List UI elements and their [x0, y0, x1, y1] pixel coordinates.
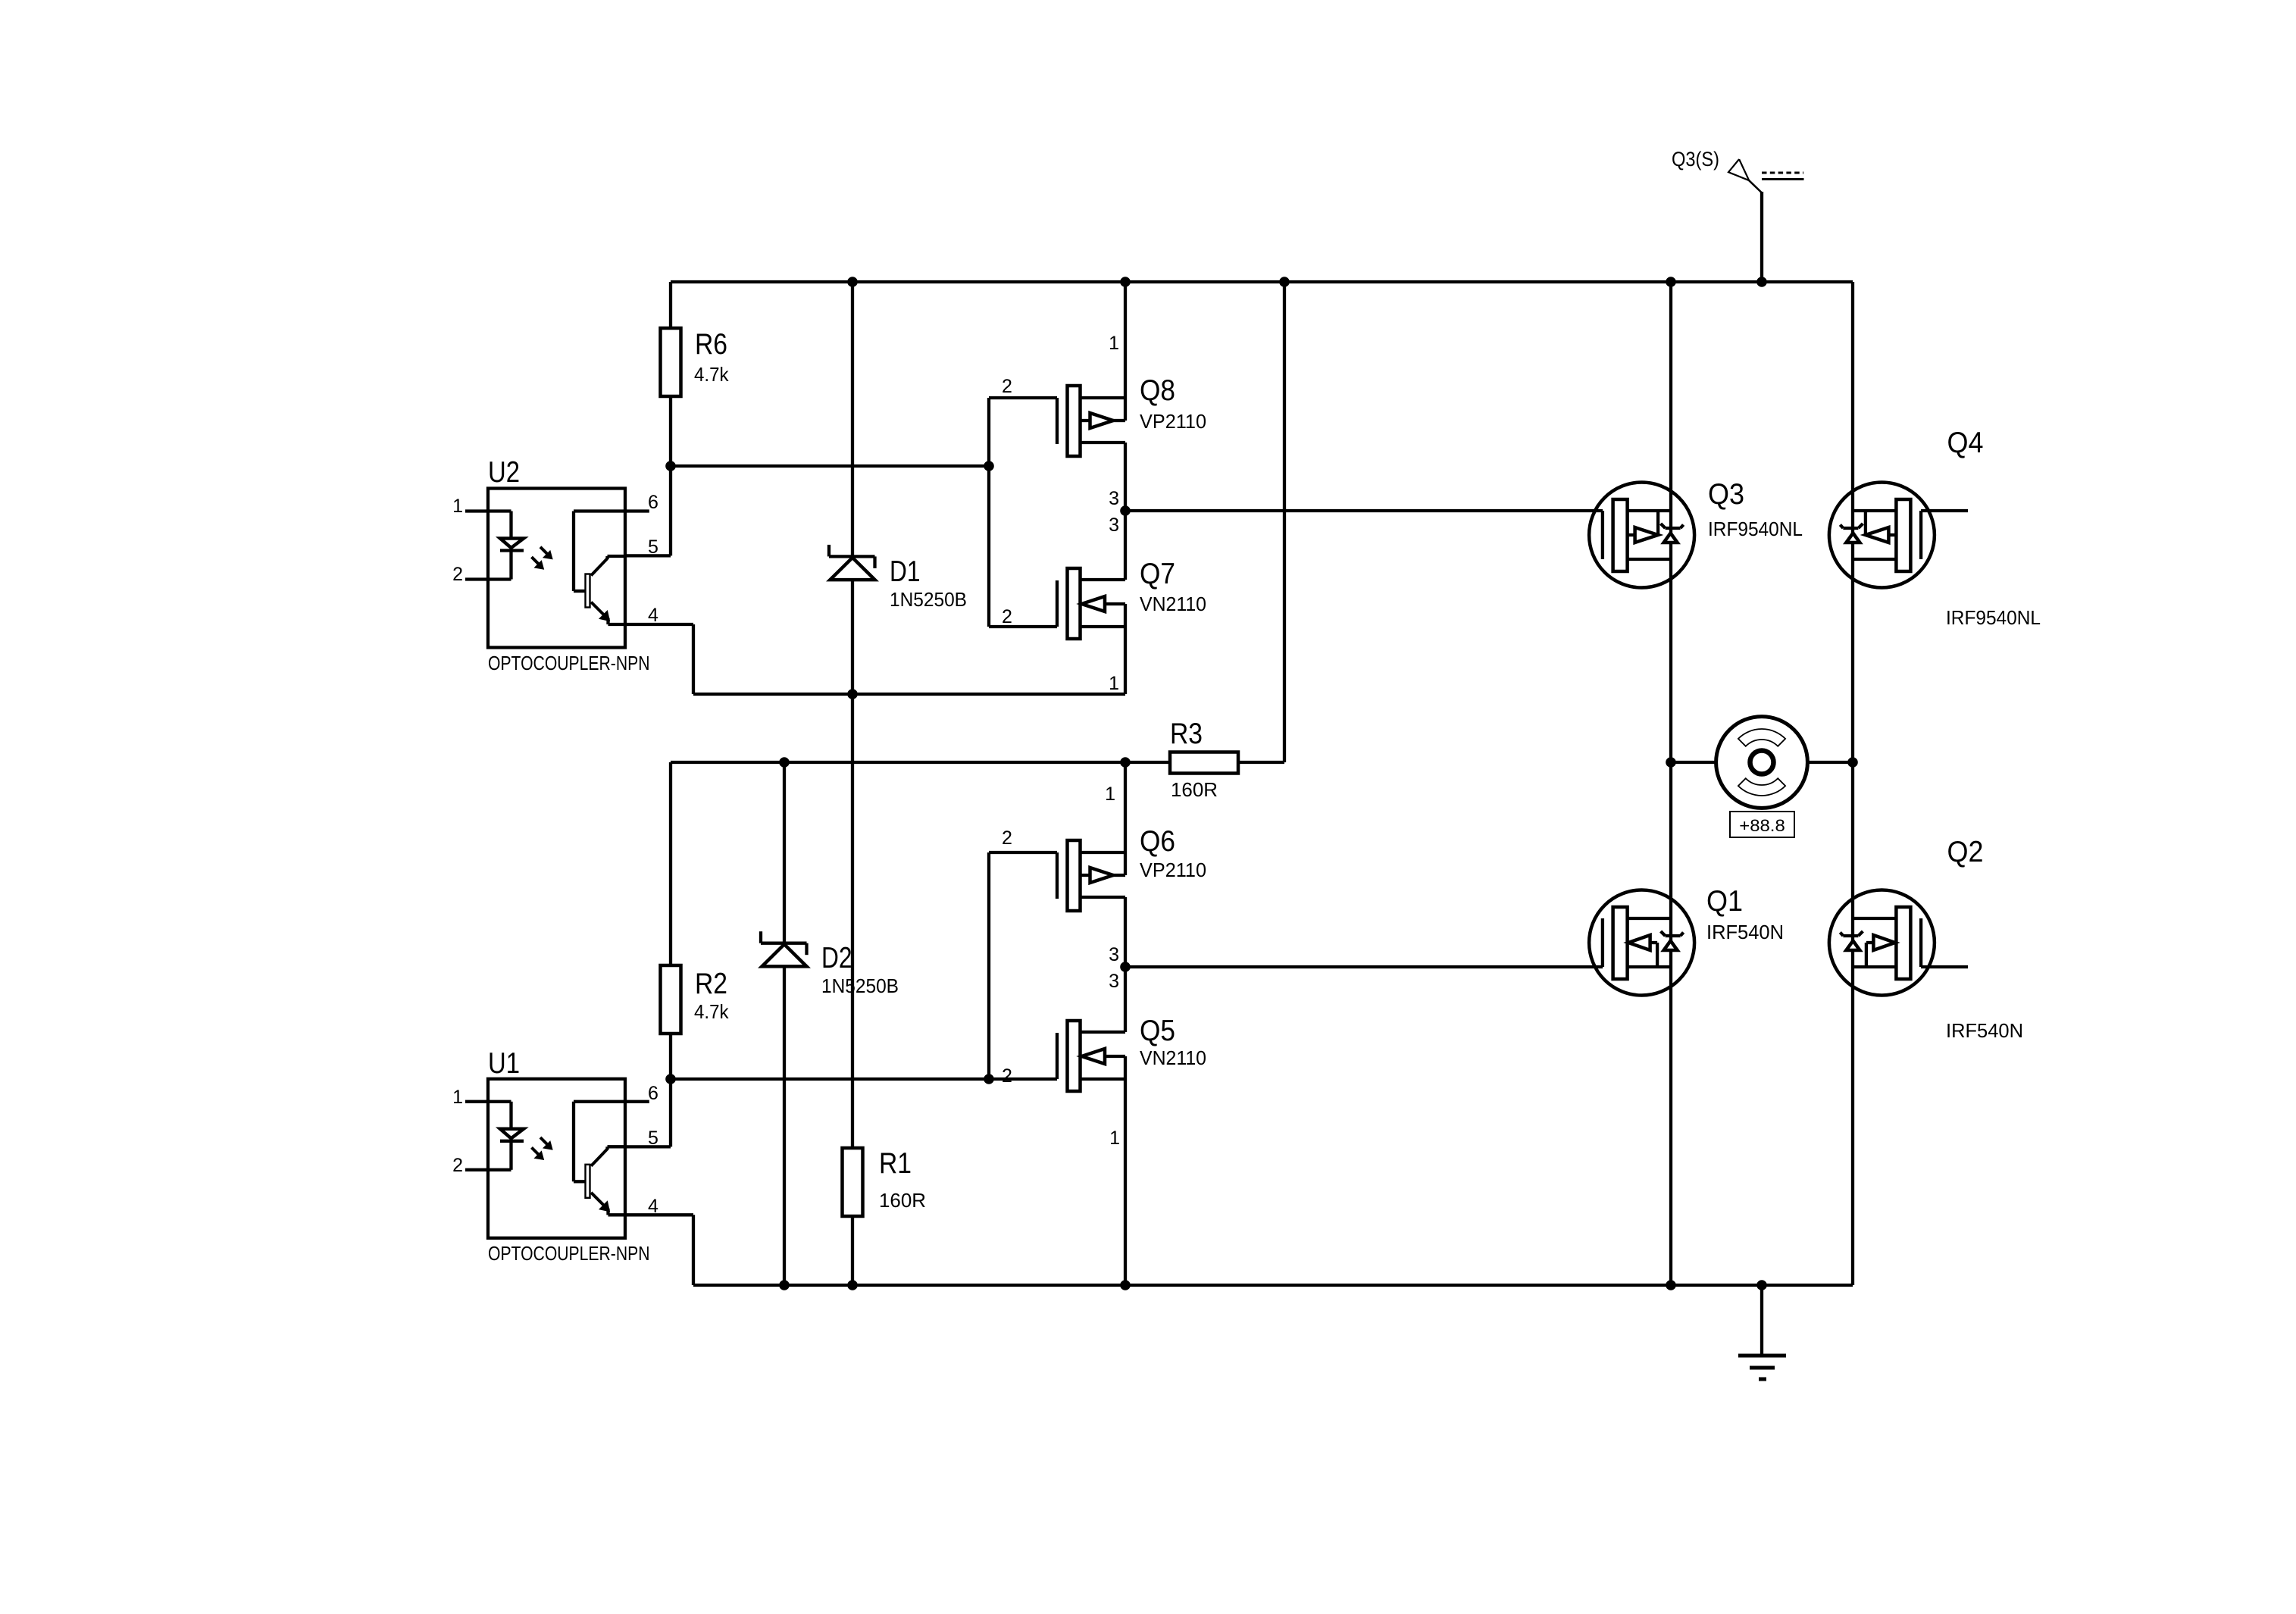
motor voltage readout +88.8 [1739, 816, 1785, 835]
svg-text:VN2110: VN2110 [1140, 1046, 1206, 1069]
wire junction down to U1 pin 5 [625, 1079, 671, 1146]
U2 pin 2 number [452, 564, 463, 585]
svg-text:R1: R1 [879, 1147, 912, 1180]
node: bottom bus / R1 [847, 1280, 858, 1290]
svg-text:2: 2 [1002, 827, 1012, 849]
node: Q3/Q1 to motor [1666, 757, 1676, 768]
zener diode D1 [829, 545, 875, 580]
label Q7 [1140, 558, 1175, 590]
wire rail to R2 [669, 762, 672, 965]
wire Q2 gate stub [1921, 965, 1968, 968]
node: rail / D1 junction [847, 689, 858, 699]
svg-text:1: 1 [452, 496, 463, 517]
svg-text:VP2110: VP2110 [1140, 410, 1206, 433]
svg-text:2: 2 [1002, 1065, 1012, 1087]
wire U1 pin 6 stub [625, 1100, 649, 1103]
wire Q6/Q5 node to Q1 gate [1125, 965, 1603, 968]
svg-text:Q8: Q8 [1140, 374, 1175, 407]
U2 pin 6 number [648, 492, 658, 513]
node: lower rail / Q6 drain / R3 junction [1120, 757, 1131, 768]
svg-text:U1: U1 [488, 1047, 520, 1080]
svg-text:VN2110: VN2110 [1140, 593, 1206, 615]
svg-text:2: 2 [1002, 376, 1012, 397]
wire motor left lead [1671, 761, 1716, 764]
wire bottom ground bus [693, 1284, 1853, 1287]
U1 pin 5 number [648, 1128, 658, 1149]
wire upper mid rail [693, 693, 1125, 696]
wire U1 pin 1 stub [465, 1100, 488, 1103]
label Q3 [1708, 478, 1744, 511]
label Q2 [1947, 836, 1984, 868]
label Q3 value IRF9540NL [1708, 518, 1803, 540]
optocoupler U1 [488, 1079, 625, 1238]
svg-text:1: 1 [1109, 333, 1119, 354]
svg-text:1N5250B: 1N5250B [890, 588, 967, 611]
node: Q8/Q7 sources (3,3) [1120, 505, 1131, 516]
ground symbol [1738, 1285, 1786, 1379]
label D1 value 1N5250B [890, 588, 967, 611]
wire gate drive to riser (lower) [671, 1078, 989, 1081]
node: top bus / Q3 drain junction [1666, 277, 1676, 287]
wire U2 pin 2 stub [465, 577, 488, 580]
wire probe to top bus [1760, 192, 1763, 282]
label Q8 value VP2110 [1140, 410, 1206, 433]
label Q5 [1140, 1015, 1175, 1047]
svg-text:Q1: Q1 [1706, 885, 1743, 918]
U1 pin 1 number [452, 1087, 463, 1108]
resistor R6 [661, 328, 681, 396]
Q7 pin 3 number [1109, 515, 1119, 536]
label R3 value 160R [1171, 778, 1218, 801]
svg-text:D2: D2 [821, 942, 852, 974]
wire bus to R6 [669, 282, 672, 328]
wire gate drive to riser (upper) [671, 464, 989, 468]
optocoupler U2 [488, 489, 625, 648]
svg-text:1N5250B: 1N5250B [821, 974, 899, 997]
wire R3 riser to bus [1283, 282, 1286, 762]
svg-text:1: 1 [1109, 1128, 1120, 1149]
svg-text:4.7k: 4.7k [694, 363, 729, 386]
wire lower gate riser [987, 852, 990, 1079]
resistor R1 [843, 1148, 863, 1216]
label R1 value 160R [879, 1189, 926, 1212]
svg-text:3: 3 [1109, 944, 1119, 965]
wire U2 pin 4 to rail [625, 624, 693, 694]
svg-text:6: 6 [648, 1083, 658, 1104]
transistor Q5 (VN2110) [989, 1021, 1125, 1091]
svg-text:2: 2 [1002, 606, 1012, 627]
svg-text:1: 1 [1105, 784, 1115, 805]
node: R6 / U2 pin5 / gate-wire junction [665, 461, 676, 471]
label D2 value 1N5250B [821, 974, 899, 997]
label U1 OPTOCOUPLER-NPN [488, 1242, 650, 1265]
zener diode D2 [761, 931, 807, 966]
wire Q5 source to bottom bus [1124, 1056, 1127, 1285]
svg-text:6: 6 [648, 492, 658, 513]
wire R2 to junction [669, 1034, 672, 1079]
node: top bus / Q8 drain junction [1120, 277, 1131, 287]
label Q3(S) [1672, 148, 1719, 170]
wire U2 pin 6 stub [625, 509, 649, 512]
U1 pin 4 number [648, 1196, 658, 1217]
wire Q8/Q7 node to Q3 gate [1125, 509, 1603, 512]
svg-text:3: 3 [1109, 488, 1119, 509]
wire Q4/Q2 branch [1851, 282, 1854, 1285]
wire R6 to junction [669, 396, 672, 466]
label D1 [890, 555, 921, 588]
Q5 pin 2 number [1002, 1065, 1012, 1087]
node: bottom bus / D2 [779, 1280, 790, 1290]
svg-text:Q4: Q4 [1947, 427, 1984, 459]
wire rail to D2 [783, 762, 786, 943]
Q6 pin 2 number [1002, 827, 1012, 849]
svg-text:2: 2 [452, 1155, 463, 1176]
node: upper gate riser junction [984, 461, 994, 471]
svg-text:D1: D1 [890, 555, 921, 588]
Q7 pin 1 number [1109, 673, 1119, 694]
wire rail to Q6 drain [1124, 762, 1127, 875]
label Q6 [1140, 825, 1175, 858]
U1 pin 2 number [452, 1155, 463, 1176]
resistor R3 [1170, 752, 1238, 774]
svg-text:2: 2 [452, 564, 463, 585]
U1 pin 6 number [648, 1083, 658, 1104]
label Q1 value IRF540N [1706, 921, 1784, 943]
label U1 [488, 1047, 520, 1080]
svg-text:IRF540N: IRF540N [1706, 921, 1784, 943]
svg-text:IRF9540NL: IRF9540NL [1708, 518, 1803, 540]
transistor Q7 (VN2110) [989, 568, 1125, 639]
wire node to Q5 drain [1124, 967, 1127, 1032]
wire upper gate riser [987, 398, 990, 627]
label Q2 value IRF540N [1946, 1019, 2023, 1042]
svg-text:R2: R2 [695, 968, 727, 1000]
wire lower V+ rail [671, 761, 1170, 764]
U2 pin 5 number [648, 536, 658, 558]
svg-text:5: 5 [648, 1128, 658, 1149]
svg-text:5: 5 [648, 536, 658, 558]
svg-text:Q7: Q7 [1140, 558, 1175, 590]
svg-text:IRF540N: IRF540N [1946, 1019, 2023, 1042]
transistor Q1 (IRF540N) [1589, 890, 1694, 996]
svg-text:VP2110: VP2110 [1140, 859, 1206, 881]
transistor Q6 (VP2110) [989, 840, 1125, 911]
Q8 pin 2 number [1002, 376, 1012, 397]
svg-text:3: 3 [1109, 971, 1119, 992]
svg-text:U2: U2 [488, 456, 520, 489]
node: top bus / D1 junction [847, 277, 858, 287]
wire top V+ bus [671, 280, 1853, 283]
node: lower gate riser junction [984, 1074, 994, 1084]
label Q7 value VN2110 [1140, 593, 1206, 615]
wire node to Q7 drain [1124, 511, 1127, 580]
Q8 pin 1 number [1109, 333, 1119, 354]
wire Q4 gate stub [1921, 509, 1968, 512]
svg-text:Q3: Q3 [1708, 478, 1744, 511]
wire Q7 source to rail [1124, 604, 1127, 694]
wire U1 pin 4 to bottom bus [625, 1215, 693, 1285]
svg-text:Q5: Q5 [1140, 1015, 1175, 1047]
svg-text:IRF9540NL: IRF9540NL [1946, 606, 2041, 629]
svg-text:Q6: Q6 [1140, 825, 1175, 858]
label Q5 value VN2110 [1140, 1046, 1206, 1069]
voltage probe Q3(S) symbol [1728, 159, 1804, 192]
Q6 pin 3 number [1109, 944, 1119, 965]
svg-text:R3: R3 [1170, 718, 1203, 750]
svg-text:Q2: Q2 [1947, 836, 1984, 868]
label Q6 value VP2110 [1140, 859, 1206, 881]
U2 pin 1 number [452, 496, 463, 517]
transistor Q4 (IRF9540NL) [1829, 483, 1935, 588]
label D2 [821, 942, 852, 974]
svg-text:1: 1 [452, 1087, 463, 1108]
transistor Q8 (VP2110) [989, 386, 1125, 456]
svg-text:R6: R6 [695, 328, 727, 361]
Q6 pin 1 number [1105, 784, 1115, 805]
wire Q3/Q1 branch [1669, 282, 1672, 1285]
label U2 OPTOCOUPLER-NPN [488, 652, 650, 674]
wire D2 to bottom bus [783, 966, 786, 1285]
node: bottom bus / ground tap [1756, 1280, 1767, 1290]
wire bus to D1 [851, 282, 854, 556]
wire U1 pin 2 stub [465, 1168, 488, 1171]
wire motor right lead [1807, 761, 1853, 764]
svg-text:+88.8: +88.8 [1739, 816, 1785, 835]
node: top bus / probe junction [1756, 277, 1767, 287]
wire R1 to bottom bus [851, 1216, 854, 1285]
motor M1 [1716, 717, 1808, 809]
Q5 pin 1 number [1109, 1128, 1120, 1149]
svg-text:160R: 160R [879, 1189, 926, 1212]
wire bus to Q8 drain [1124, 282, 1127, 421]
Q8 pin 3 number [1109, 488, 1119, 509]
resistor R2 [661, 965, 681, 1034]
node: bottom bus / Q1 source [1666, 1280, 1676, 1290]
wire Q6 source to node [1124, 897, 1127, 967]
svg-text:4.7k: 4.7k [694, 1000, 729, 1023]
node: R2 / U1 pin5 / gate-wire junction [665, 1074, 676, 1084]
node: top bus / R3 riser junction [1279, 277, 1290, 287]
label R3 [1170, 718, 1203, 750]
label U2 [488, 456, 520, 489]
label R6 [695, 328, 727, 361]
label R1 [879, 1147, 912, 1180]
U2 pin 4 number [648, 605, 658, 626]
label R6 value 4.7k [694, 363, 729, 386]
node: Q4/Q2 to motor [1847, 757, 1858, 768]
wire R3 to riser [1238, 761, 1284, 764]
node: lower rail / D2 junction [779, 757, 790, 768]
node: Q6/Q5 sources (3,3) [1120, 962, 1131, 972]
label R2 [695, 968, 727, 1000]
svg-text:4: 4 [648, 605, 658, 626]
motor voltage readout box [1730, 812, 1794, 837]
label Q1 [1706, 885, 1743, 918]
node: bottom bus / Q5 source [1120, 1280, 1131, 1290]
wire D1 to R1 [851, 580, 854, 1148]
svg-text:3: 3 [1109, 515, 1119, 536]
label R2 value 4.7k [694, 1000, 729, 1023]
Q5 pin 3 number [1109, 971, 1119, 992]
wire junction down to U2 pin 5 [625, 466, 671, 555]
label Q4 value IRF9540NL [1946, 606, 2041, 629]
svg-text:OPTOCOUPLER-NPN: OPTOCOUPLER-NPN [488, 652, 650, 674]
svg-text:Q3(S): Q3(S) [1672, 148, 1719, 170]
Q7 pin 2 number [1002, 606, 1012, 627]
svg-text:160R: 160R [1171, 778, 1218, 801]
label Q4 [1947, 427, 1984, 459]
transistor Q3 (IRF9540NL) [1589, 483, 1694, 588]
svg-text:OPTOCOUPLER-NPN: OPTOCOUPLER-NPN [488, 1242, 650, 1265]
transistor Q2 (IRF540N) [1829, 890, 1935, 996]
wire U2 pin 1 stub [465, 509, 488, 512]
svg-text:1: 1 [1109, 673, 1119, 694]
wire Q8 source to node [1124, 443, 1127, 511]
label Q8 [1140, 374, 1175, 407]
